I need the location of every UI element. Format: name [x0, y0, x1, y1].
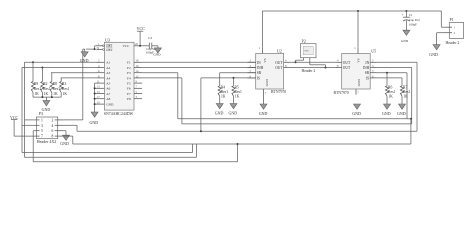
svg-text:IN: IN	[257, 61, 261, 65]
pin U5 VS (1)	[354, 46, 360, 63]
svg-text:P2: P2	[302, 38, 306, 43]
svg-text:U5: U5	[371, 48, 376, 53]
pin U2 OUT (4)	[275, 59, 289, 65]
svg-text:OUT: OUT	[275, 66, 283, 70]
svg-text:4: 4	[52, 124, 54, 128]
ground for pull resistors	[42, 97, 51, 112]
resistor R6	[385, 73, 395, 99]
svg-text:2: 2	[52, 118, 54, 122]
wire rail A2 loop bottom	[22, 144, 193, 153]
svg-text:Res1: Res1	[62, 87, 70, 91]
driver U5 body	[342, 54, 371, 90]
ground at P3	[60, 135, 69, 146]
svg-text:Y6: Y6	[127, 87, 131, 91]
connector P2	[296, 38, 326, 73]
svg-text:GND: GND	[259, 111, 268, 116]
svg-text:100pF: 100pF	[409, 22, 417, 26]
svg-text:1K: 1K	[221, 95, 226, 99]
pin Y1 (18)	[127, 59, 143, 65]
wire U5 VS to top rail	[357, 11, 359, 48]
wire Y4 down	[142, 78, 182, 124]
svg-text:P1: P1	[450, 17, 454, 22]
svg-text:A8: A8	[106, 97, 110, 101]
pin U2 SR (5)	[248, 69, 262, 75]
svg-text:3: 3	[41, 124, 43, 128]
wire P3 pin5 sense loop	[33, 131, 36, 162]
power VCC left	[10, 115, 36, 136]
resistor R2	[41, 67, 51, 97]
svg-text:OUT: OUT	[275, 61, 283, 65]
ground for OE pins	[80, 49, 89, 63]
svg-text:Y2: Y2	[127, 66, 131, 70]
svg-text:SN74AHC244DW: SN74AHC244DW	[104, 112, 134, 116]
capacitor C1 polarized	[402, 11, 421, 26]
wire U2 IS row	[201, 77, 256, 131]
pin U5 OUT (8)	[336, 64, 351, 70]
svg-text:1K: 1K	[53, 92, 58, 96]
svg-text:Y1: Y1	[127, 61, 131, 65]
pin A1 (2)	[97, 59, 111, 65]
wire OE tie	[86, 46, 97, 50]
svg-text:+: +	[402, 13, 404, 17]
svg-text:1K: 1K	[235, 95, 240, 99]
svg-text:U3: U3	[105, 37, 110, 42]
pin A7 (15)	[95, 90, 111, 96]
svg-text:GND: GND	[352, 111, 361, 116]
svg-text:Cap Po2: Cap Po2	[409, 18, 420, 22]
wire net INH1 row A2	[22, 67, 97, 69]
wire Y2 to U2 INH	[142, 67, 256, 69]
wire U2 VS to top rail	[261, 11, 263, 48]
pin A2 (4)	[97, 64, 111, 70]
ground for R7	[397, 96, 406, 116]
svg-text:A3: A3	[106, 71, 110, 75]
svg-text:GND: GND	[397, 111, 406, 116]
resistor R3	[60, 78, 70, 96]
svg-text:BTN7970: BTN7970	[271, 90, 286, 94]
resistor R7	[400, 86, 410, 99]
capacitor C2	[142, 36, 159, 54]
svg-text:VS: VS	[263, 58, 267, 62]
wire A5-A8 tie to GND pin	[94, 83, 96, 112]
svg-text:C2: C2	[148, 36, 152, 40]
svg-text:A6: A6	[106, 87, 110, 91]
designator U3	[105, 37, 110, 42]
svg-text:BTN7970: BTN7970	[334, 91, 349, 95]
pin A4 (8)	[97, 74, 111, 80]
pin A6 (13)	[95, 85, 111, 91]
svg-text:GND: GND	[357, 78, 361, 86]
svg-text:Header 4X2: Header 4X2	[37, 139, 56, 144]
svg-text:INH: INH	[257, 66, 264, 70]
svg-text:6: 6	[52, 129, 54, 133]
pin U2 IS (6)	[248, 74, 261, 80]
wire U2 SR from R4	[220, 72, 256, 74]
ground for R5	[229, 96, 238, 115]
svg-text:SR: SR	[365, 71, 370, 75]
ground for R6	[382, 96, 391, 116]
svg-text:VS: VS	[357, 58, 361, 62]
value label BTN7970 U5	[334, 91, 349, 95]
connector P3	[36, 111, 64, 144]
svg-text:GND: GND	[265, 78, 269, 86]
wire OUT1 between drivers	[289, 61, 336, 63]
svg-text:A5: A5	[106, 82, 110, 86]
svg-text:VCC: VCC	[137, 26, 146, 31]
svg-text:A7: A7	[106, 92, 110, 96]
pin VCC (20)	[123, 42, 143, 48]
wire A1 left loop down to P3 pin1 and bottom rail	[25, 62, 37, 157]
wire net IS1 row A4	[61, 77, 97, 79]
pin U5 OUT (4)	[336, 59, 351, 65]
svg-text:GND: GND	[153, 52, 161, 56]
wire OUT2 between drivers	[289, 67, 336, 69]
pin A8 (17)	[95, 95, 111, 101]
svg-text:P3: P3	[39, 111, 43, 116]
resistor R5	[232, 78, 242, 99]
pin U5 IS (6)	[366, 74, 377, 80]
wire rail P3 pin8	[64, 119, 411, 144]
pin U2 VS (1)	[259, 46, 267, 63]
svg-text:OUT: OUT	[343, 61, 351, 65]
svg-text:GND: GND	[382, 111, 391, 116]
pin Y7 (5)	[127, 90, 143, 96]
svg-text:IS: IS	[366, 76, 369, 80]
power VCC above U3	[137, 26, 146, 47]
pin Y6 (7)	[127, 85, 143, 91]
svg-text:Y3: Y3	[127, 71, 131, 75]
pin Y8 (3)	[127, 95, 143, 101]
pin U5 SR (5)	[365, 69, 377, 75]
wire U5 IN net riser	[377, 62, 418, 131]
svg-text:Res1: Res1	[235, 90, 243, 94]
svg-text:1K: 1K	[34, 92, 39, 96]
wire top VS rail	[262, 10, 441, 12]
wire P3 pin4 jog	[64, 125, 77, 131]
svg-text:VCC: VCC	[123, 44, 131, 48]
wire Y3 down	[142, 73, 178, 119]
pin U5 INH (3)	[363, 64, 377, 70]
svg-text:GND: GND	[60, 141, 69, 146]
wire P1 pin2 to ground	[437, 33, 445, 45]
ground below U5	[352, 104, 361, 116]
ground for C1	[401, 20, 410, 42]
svg-text:Res1: Res1	[221, 90, 229, 94]
pin U5 GND (7)	[356, 78, 361, 94]
wire rail A1 loop bottom	[25, 144, 197, 157]
pin Y5 (9)	[127, 80, 143, 86]
wire P3 pin6 to ground	[64, 131, 66, 136]
pin OE1 (1)	[97, 42, 113, 48]
svg-text:1K: 1K	[388, 95, 393, 99]
svg-text:U2: U2	[277, 48, 282, 53]
resistor R8	[50, 73, 60, 97]
svg-text:Y5: Y5	[127, 82, 131, 86]
svg-text:GND: GND	[229, 110, 238, 115]
buffer U3 body	[104, 42, 134, 110]
svg-text:Header 2: Header 2	[302, 69, 316, 73]
svg-text:Y4: Y4	[127, 76, 131, 80]
resistor R9	[31, 61, 41, 96]
svg-text:GND: GND	[429, 52, 438, 57]
value label BTN7970 U2	[271, 90, 286, 94]
ground for C2	[152, 46, 162, 57]
wire net IN1 row A1	[25, 61, 97, 63]
wire rail IS sense bottom	[33, 143, 238, 162]
svg-text:Header 2: Header 2	[446, 41, 460, 45]
pin OE2 (19)	[96, 46, 112, 52]
pin Y3 (14)	[127, 69, 143, 75]
svg-text:R2: R2	[43, 82, 47, 86]
svg-text:A2: A2	[106, 66, 110, 70]
pin U5 IN (2)	[365, 59, 376, 65]
svg-text:Res1: Res1	[403, 90, 411, 94]
wire rail Y5 to U5 INH	[182, 123, 412, 125]
value label SN74AHC244DW	[104, 112, 134, 116]
svg-text:C1: C1	[409, 13, 413, 17]
wire net SR1 row A3	[51, 72, 97, 74]
svg-text:INH: INH	[363, 66, 370, 70]
pin U2 OUT (8)	[275, 64, 289, 70]
driver U2 body	[256, 54, 284, 90]
svg-text:OUT: OUT	[343, 66, 351, 70]
wire U5 SR net	[377, 72, 408, 119]
svg-text:5: 5	[41, 129, 43, 133]
svg-text:Y7: Y7	[127, 92, 131, 96]
ground for R4	[215, 96, 224, 115]
connector P1	[445, 17, 464, 45]
pin U2 INH (3)	[248, 64, 264, 70]
pin Y2 (16)	[127, 64, 143, 70]
svg-text:1: 1	[41, 118, 43, 122]
resistor R4	[218, 73, 228, 99]
pin A5 (11)	[95, 80, 111, 86]
svg-text:1K: 1K	[44, 92, 49, 96]
svg-text:SR: SR	[257, 71, 262, 75]
pin U2 IN (2)	[248, 59, 261, 65]
svg-text:A1: A1	[106, 61, 110, 65]
pin Y4 (12)	[127, 74, 143, 80]
svg-text:Res1: Res1	[388, 90, 396, 94]
svg-text:GND: GND	[80, 58, 89, 63]
designator U5	[371, 48, 376, 53]
svg-text:A4: A4	[106, 76, 110, 80]
svg-text:GND: GND	[106, 103, 114, 107]
svg-text:IS: IS	[257, 76, 260, 80]
svg-text:GND: GND	[90, 120, 99, 125]
svg-text:OE2: OE2	[106, 48, 112, 52]
wire resistor bottoms bus	[33, 93, 61, 99]
wire rail Y4 to U5 SR	[178, 118, 412, 120]
svg-text:Res1: Res1	[34, 87, 42, 91]
svg-text:Y8: Y8	[127, 97, 131, 101]
designator U2	[277, 48, 282, 53]
ground below U3	[90, 112, 99, 125]
svg-text:Res1: Res1	[53, 87, 61, 91]
pin U2 GND (7)	[264, 78, 269, 104]
svg-text:IN: IN	[365, 61, 369, 65]
wire P3 pin2 riser to OE gnd	[64, 49, 85, 120]
svg-text:Res1: Res1	[43, 87, 51, 91]
svg-text:8: 8	[52, 135, 54, 139]
wire P1 pin1 to VS rail	[441, 11, 444, 27]
ground for P1	[429, 45, 440, 57]
svg-text:R3: R3	[62, 82, 66, 86]
svg-text:R8: R8	[53, 82, 57, 86]
svg-text:1K: 1K	[63, 92, 68, 96]
ground below U2	[259, 104, 268, 116]
svg-text:R9: R9	[34, 82, 38, 86]
svg-text:7: 7	[41, 135, 43, 139]
wire A2 left loop down to P3 pin3 and bottom rail	[22, 68, 36, 153]
wire Y1 to U2 IN	[142, 61, 256, 63]
wire U5 IS to R7	[377, 78, 403, 86]
svg-text:GND: GND	[215, 110, 224, 115]
wire rail P3 pin4 to U5 IN	[77, 130, 417, 132]
wire U5 INH net riser	[377, 68, 412, 124]
pin A3 (6)	[97, 69, 111, 75]
svg-text:1K: 1K	[403, 95, 408, 99]
pin GND (10)	[95, 101, 114, 107]
svg-text:GND: GND	[401, 39, 409, 43]
